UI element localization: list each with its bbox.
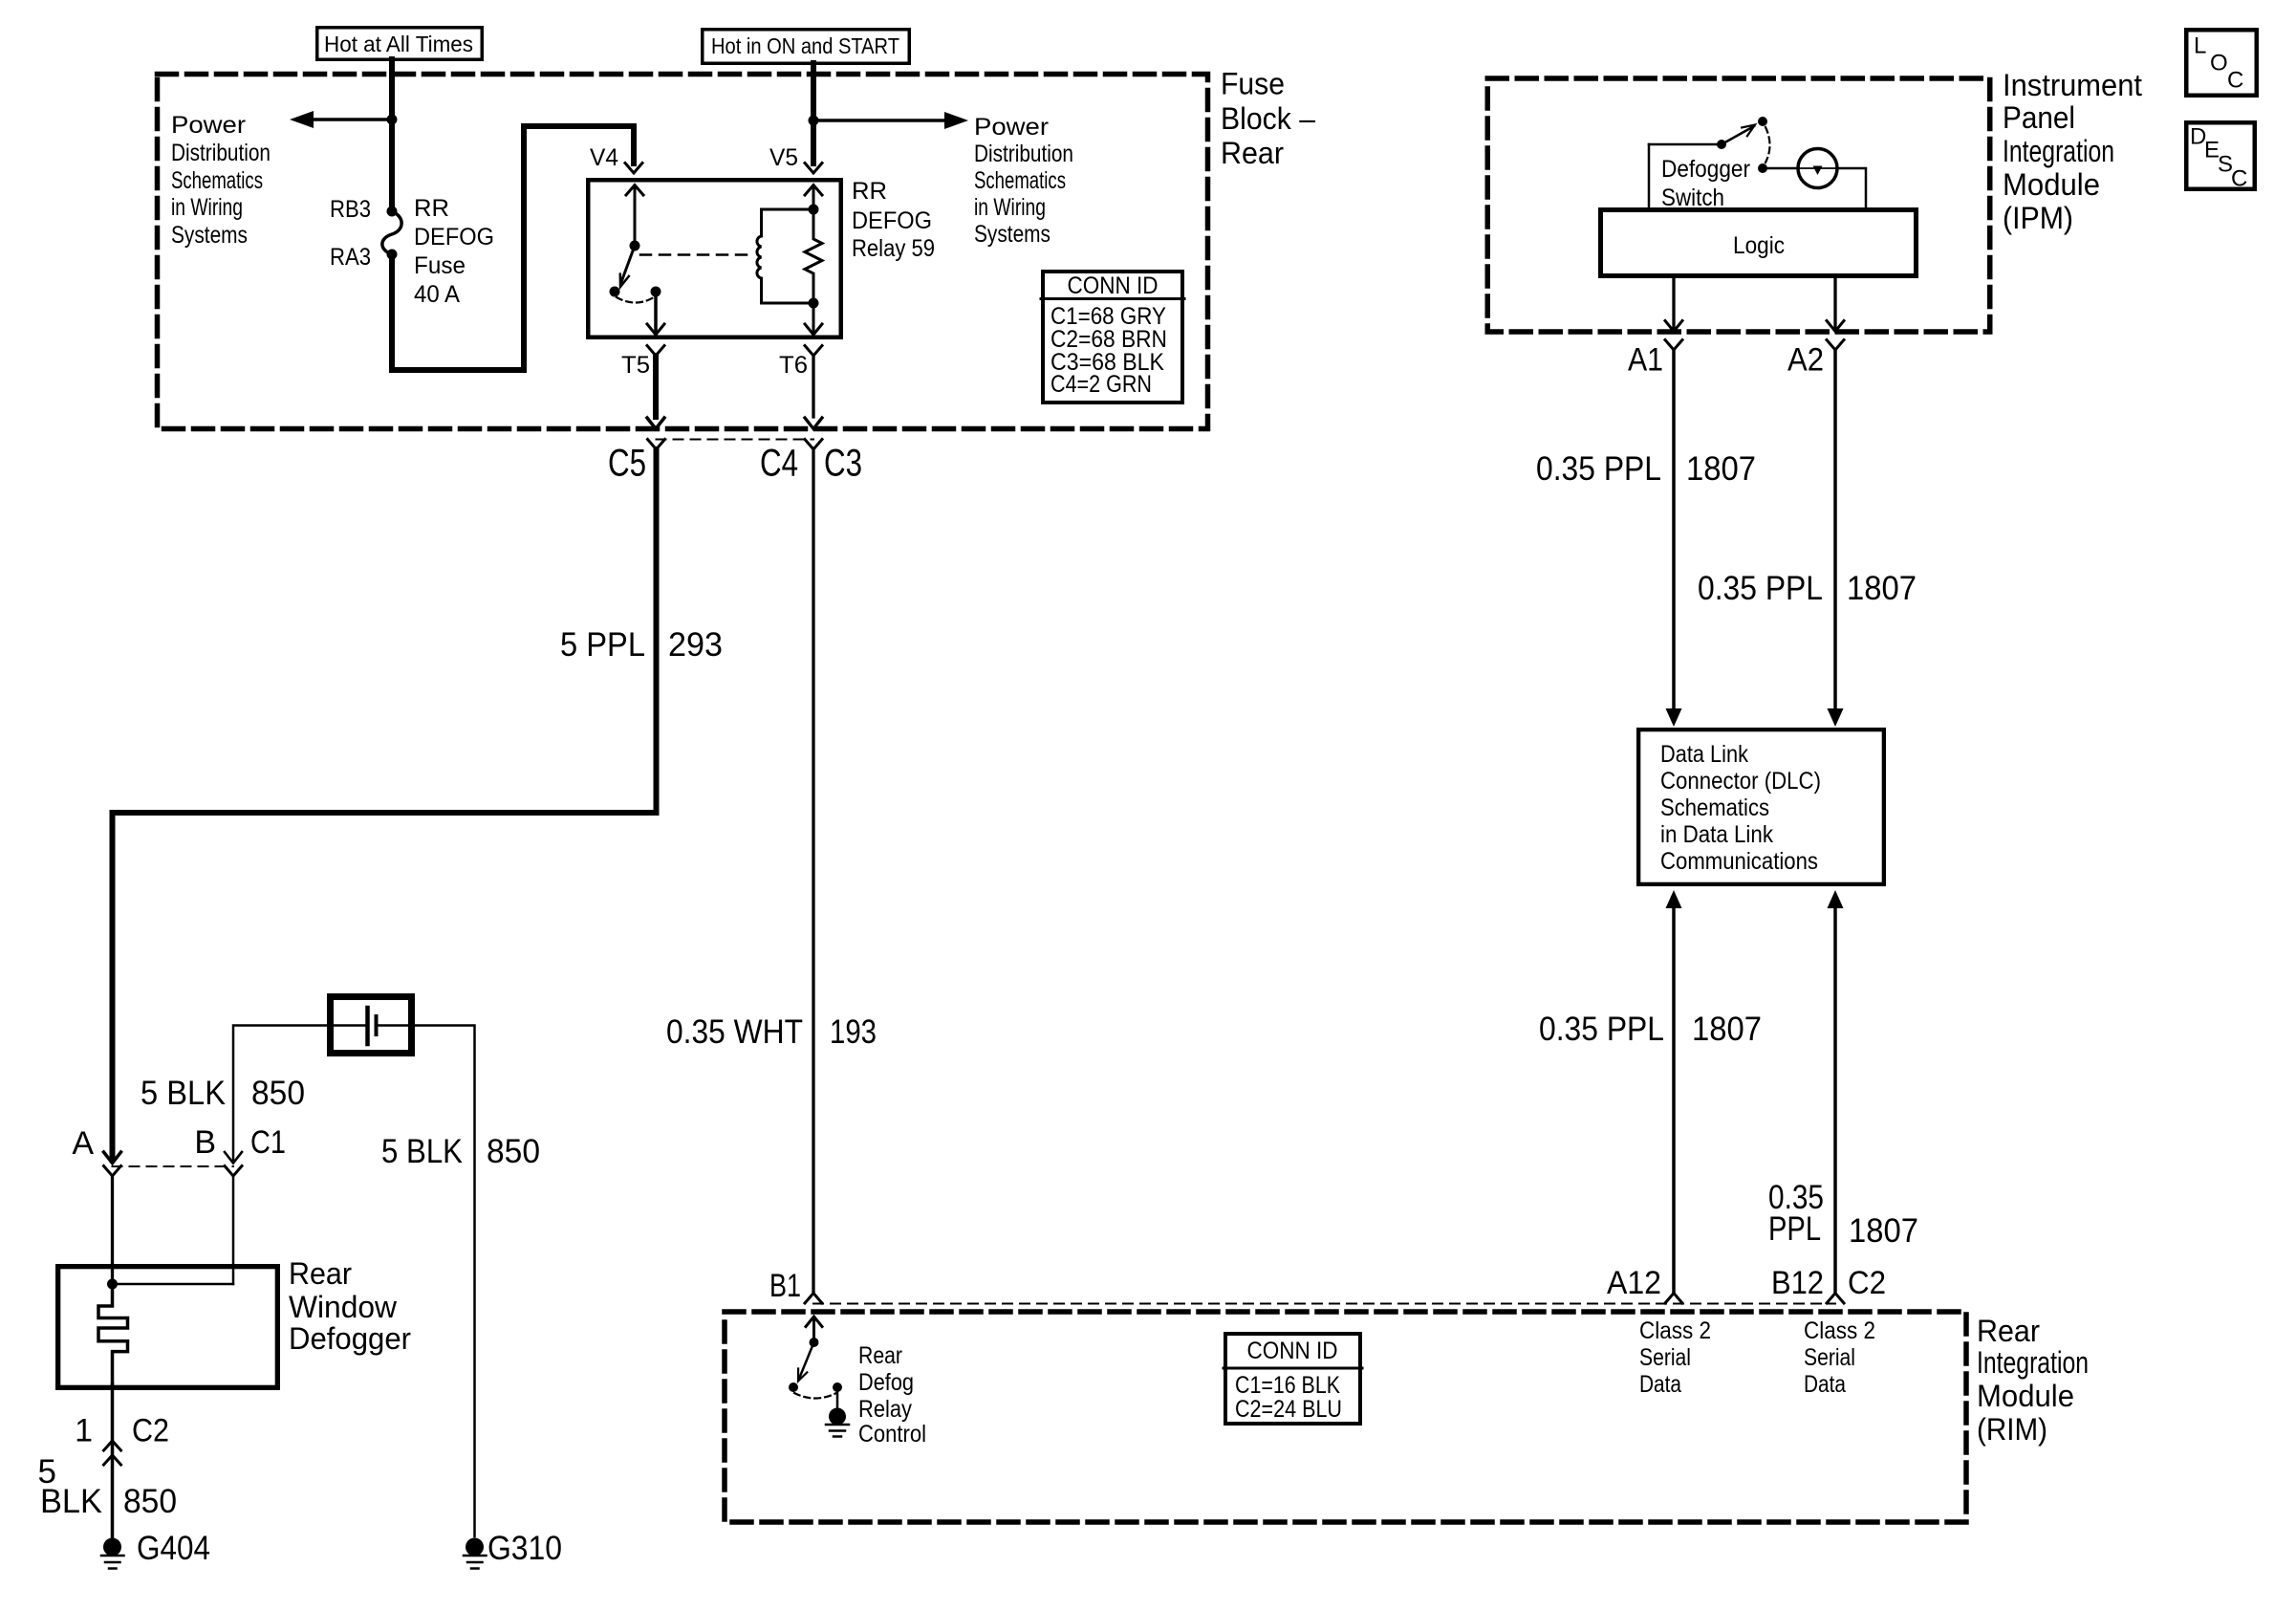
svg-text:T6: T6 — [779, 352, 808, 379]
wire label: 5 BLK | 850 (upper) — [141, 1075, 305, 1112]
svg-text:Power: Power — [974, 114, 1049, 141]
svg-text:RB3: RB3 — [330, 196, 371, 223]
wire: DLC down to RIM C2 — [1828, 890, 1844, 908]
svg-text:Hot in ON and START: Hot in ON and START — [711, 33, 899, 58]
connector 1 / C2 (double chevron) — [104, 1441, 121, 1450]
text: Power Distribution Schematics in Wiring Systems (left) — [171, 112, 271, 249]
wire: A1 down to DLC — [1672, 350, 1676, 709]
wire: voltmeter left lead down to connector B — [233, 1026, 365, 1161]
value label: RR DEFOG Fuse 40 A — [414, 195, 494, 308]
svg-text:1: 1 — [75, 1413, 93, 1449]
CONN ID table (RIM) — [1225, 1334, 1360, 1424]
svg-text:40 A: 40 A — [414, 281, 460, 308]
rear defog relay control driver: input arrow — [812, 1317, 815, 1342]
svg-text:Communications: Communications — [1660, 848, 1818, 875]
svg-text:C5: C5 — [608, 443, 646, 485]
wire: ignition feed from Hot in ON and START down to relay terminal V5 — [811, 63, 816, 163]
relay internal: common arm terminal from V4 — [634, 185, 637, 246]
relay internal: movable switch arm with arrowhead — [621, 246, 635, 282]
IPM dashed border — [1487, 78, 1990, 332]
wire: sensor to Logic — [1837, 168, 1866, 207]
label: RR DEFOG Relay 59 — [852, 178, 935, 262]
svg-text:O: O — [2210, 51, 2228, 76]
wire: C5 down, left and down to defogger pin A — [113, 449, 657, 1160]
DESC reference box — [2186, 122, 2255, 189]
label: Class 2 Serial Data (right) — [1804, 1317, 1875, 1398]
svg-text:Rear: Rear — [1221, 136, 1284, 170]
svg-text:B1: B1 — [769, 1268, 801, 1304]
svg-text:5 BLK: 5 BLK — [381, 1133, 463, 1170]
svg-text:Integration: Integration — [1977, 1345, 2089, 1380]
svg-text:Serial: Serial — [1639, 1344, 1691, 1371]
RIM dashed border — [725, 1312, 1966, 1522]
connector V5 — [805, 163, 822, 174]
wire: Logic output A2 — [1833, 278, 1836, 330]
svg-text:1807: 1807 — [1692, 1011, 1762, 1048]
label: Rear Defog Relay Control — [858, 1342, 926, 1448]
wire: C4 down to RIM pin B1 (0.35 WHT 193) — [812, 449, 814, 1293]
svg-text:BLK: BLK — [40, 1483, 102, 1520]
label box: Hot at All Times — [317, 28, 483, 60]
svg-text:in Wiring: in Wiring — [974, 194, 1046, 221]
relay internal: dashed throw arc — [617, 297, 654, 303]
wire: battery feed from Hot at All Times down to fuse RB3 — [389, 59, 395, 209]
node: driver pivot — [810, 1338, 819, 1347]
relay RR DEFOG Relay 59 box — [588, 180, 841, 337]
connector A1 — [1665, 340, 1682, 351]
svg-text:RR: RR — [414, 195, 449, 222]
svg-text:CONN ID: CONN ID — [1247, 1338, 1338, 1364]
Rear Window Defogger box — [58, 1267, 278, 1388]
svg-text:C3: C3 — [824, 443, 862, 485]
svg-text:C: C — [2231, 166, 2247, 192]
heater element (grid) — [98, 1284, 128, 1384]
fuse F59 RR DEFOG 40 A — [387, 207, 398, 217]
svg-text:850: 850 — [251, 1075, 305, 1112]
node: coil/resistor top junction — [809, 205, 819, 215]
wire label: 0.35 PPL | 1807 (B12/C2) — [1768, 1179, 1918, 1250]
svg-text:Schematics: Schematics — [1660, 795, 1769, 821]
relay internal: wire to T6 with arrow — [812, 303, 815, 334]
wire: contact to current sensor — [1763, 167, 1798, 170]
svg-text:293: 293 — [668, 626, 723, 664]
label: Defogger Switch — [1661, 156, 1750, 211]
svg-text:Rear: Rear — [289, 1256, 352, 1291]
svg-text:Data Link: Data Link — [1660, 741, 1748, 768]
svg-text:1807: 1807 — [1849, 1212, 1918, 1250]
svg-text:Defog: Defog — [858, 1369, 914, 1396]
svg-text:C2=24 BLU: C2=24 BLU — [1235, 1396, 1342, 1423]
svg-text:RA3: RA3 — [330, 244, 371, 271]
svg-text:T5: T5 — [621, 352, 650, 379]
connector A (Y) — [104, 1166, 121, 1177]
svg-text:V5: V5 — [769, 144, 798, 171]
connector T6 — [805, 346, 822, 357]
svg-text:0.35 WHT: 0.35 WHT — [666, 1013, 803, 1051]
svg-text:Distribution: Distribution — [974, 141, 1073, 167]
svg-text:V4: V4 — [590, 144, 618, 171]
svg-text:(RIM): (RIM) — [1977, 1412, 2047, 1447]
svg-text:C2: C2 — [1848, 1265, 1886, 1301]
svg-text:Rear: Rear — [858, 1342, 902, 1369]
svg-text:Module: Module — [1977, 1379, 2074, 1413]
node: junction on ignition feed — [809, 116, 819, 126]
svg-text:Hot at All Times: Hot at All Times — [324, 32, 473, 56]
svg-text:Serial: Serial — [1804, 1344, 1855, 1371]
Logic box — [1601, 210, 1917, 276]
svg-text:0.35 PPL: 0.35 PPL — [1539, 1011, 1664, 1048]
svg-text:Class 2: Class 2 — [1804, 1317, 1875, 1344]
svg-text:A: A — [72, 1125, 94, 1162]
label: Instrument Panel Integration Module (IPM) — [2003, 68, 2142, 235]
wire: relay T5 to fuse block edge — [653, 356, 659, 417]
relay internal: dashed actuation link to coil — [640, 253, 751, 256]
node: coil/resistor bottom junction — [809, 298, 819, 309]
svg-text:5 BLK: 5 BLK — [141, 1075, 226, 1112]
wire: A2 down to DLC — [1833, 350, 1837, 709]
svg-text:Distribution: Distribution — [171, 140, 271, 166]
label: Rear Window Defogger — [289, 1256, 411, 1356]
svg-text:G404: G404 — [137, 1530, 210, 1567]
label box: Hot in ON and START — [703, 30, 910, 64]
wire: pin A into defogger — [111, 1176, 114, 1284]
svg-text:Relay 59: Relay 59 — [852, 235, 935, 262]
label: Rear Integration Module (RIM) — [1977, 1314, 2089, 1447]
svg-text:L: L — [2194, 33, 2206, 59]
svg-text:Systems: Systems — [171, 222, 248, 249]
svg-text:Power: Power — [171, 112, 246, 139]
svg-text:5 PPL: 5 PPL — [560, 626, 645, 664]
text: Power Distribution Schematics in Wiring Systems (right) — [974, 114, 1073, 248]
svg-text:Schematics: Schematics — [974, 167, 1066, 194]
svg-text:RR: RR — [852, 178, 887, 205]
node: junction on feed wire — [387, 115, 398, 125]
wire: thin dashed connector tie along RIM edge — [813, 1303, 1835, 1305]
Data Link Connector (DLC) box — [1638, 729, 1884, 884]
svg-text:0.35 PPL: 0.35 PPL — [1536, 450, 1661, 488]
svg-text:Data: Data — [1804, 1371, 1846, 1398]
current sensor (circle) — [1798, 149, 1837, 188]
wire: DLC down to RIM A12 — [1666, 890, 1682, 908]
svg-text:Schematics: Schematics — [171, 167, 263, 194]
svg-text:in Data Link: in Data Link — [1660, 821, 1773, 848]
relay internal: V5 terminal arrow — [812, 185, 815, 209]
svg-text:C: C — [2227, 68, 2243, 94]
wire label: 5 BLK | 850 (lower) — [38, 1453, 177, 1520]
svg-text:Data: Data — [1639, 1371, 1681, 1398]
connector A2 — [1827, 340, 1844, 351]
wire: relay T6 to fuse block edge — [812, 356, 814, 417]
label: Fuse Block - Rear — [1221, 67, 1315, 171]
svg-text:Systems: Systems — [974, 221, 1051, 248]
wire label: 0.35 PPL | 1807 (A2) — [1698, 570, 1917, 607]
svg-text:Fuse: Fuse — [414, 252, 466, 279]
svg-text:B12: B12 — [1771, 1265, 1824, 1301]
connector B12 / C2 — [1827, 1294, 1844, 1304]
svg-text:Connector (DLC): Connector (DLC) — [1660, 768, 1821, 795]
svg-text:Logic: Logic — [1733, 232, 1785, 259]
svg-text:193: 193 — [830, 1013, 877, 1051]
svg-text:Instrument: Instrument — [2003, 68, 2142, 102]
svg-text:Fuse: Fuse — [1221, 67, 1285, 101]
switch contact — [1758, 163, 1767, 173]
svg-text:A1: A1 — [1628, 342, 1663, 379]
svg-text:C4=2 GRN: C4=2 GRN — [1051, 371, 1152, 398]
wire: thin dashed connector tie A-B — [113, 1165, 234, 1167]
svg-text:C2: C2 — [132, 1413, 169, 1449]
defogger switch: feed wire — [1649, 143, 1717, 146]
fuse block dashed border — [158, 75, 1208, 429]
wire: voltmeter right lead down to G310 — [379, 1026, 475, 1537]
relay internal: switch contacts — [610, 287, 620, 297]
connector B / C1 — [225, 1152, 242, 1164]
svg-text:Class 2: Class 2 — [1639, 1317, 1711, 1344]
connector T5 — [647, 346, 664, 357]
svg-text:DEFOG: DEFOG — [414, 224, 494, 250]
ground G404 — [103, 1538, 121, 1557]
relay internal: resistor — [805, 209, 822, 303]
label: Class 2 Serial Data (left) — [1639, 1317, 1711, 1398]
svg-text:C1=16 BLK: C1=16 BLK — [1235, 1372, 1340, 1399]
wire: branch arrow to Power Distribution (right) — [813, 119, 945, 122]
CONN ID table (fuse block) — [1043, 272, 1182, 403]
svg-text:850: 850 — [123, 1483, 177, 1520]
svg-text:Window: Window — [289, 1290, 398, 1324]
dashed throw arc (defogger switch) — [1765, 127, 1770, 163]
wire label: 5 BLK | 850 (right) — [381, 1133, 540, 1170]
svg-text:(IPM): (IPM) — [2003, 201, 2073, 235]
connector C5 — [648, 440, 665, 450]
svg-text:Defogger: Defogger — [1661, 156, 1750, 183]
connector V4 — [625, 163, 642, 174]
wire label: 5 PPL | 293 — [560, 626, 723, 664]
ground G310 — [466, 1538, 484, 1557]
wire label: 0.35 WHT | 193 — [666, 1013, 877, 1051]
svg-text:1807: 1807 — [1686, 450, 1756, 488]
connector C4 — [805, 440, 822, 450]
connector A12 — [1665, 1294, 1682, 1304]
node: switch throw dot — [1758, 117, 1767, 126]
svg-text:CONN ID: CONN ID — [1068, 272, 1159, 299]
switch contacts (RIM driver) — [789, 1382, 798, 1392]
dashed throw arc (RIM driver) — [794, 1393, 836, 1399]
svg-text:Relay: Relay — [858, 1396, 912, 1423]
svg-text:A2: A2 — [1787, 342, 1824, 379]
svg-text:Integration: Integration — [2003, 134, 2114, 168]
svg-text:Module: Module — [2003, 167, 2100, 202]
svg-text:A12: A12 — [1607, 1265, 1661, 1301]
voltmeter box — [331, 997, 412, 1054]
svg-text:1807: 1807 — [1847, 570, 1917, 607]
relay internal: coil — [757, 209, 762, 303]
internal ground of driver — [836, 1387, 839, 1407]
svg-text:Switch: Switch — [1661, 185, 1724, 211]
svg-text:PPL: PPL — [1768, 1210, 1821, 1248]
svg-text:C4: C4 — [760, 443, 798, 485]
wire label: 0.35 PPL | 1807 (A1 upper) — [1536, 450, 1756, 488]
svg-text:C1: C1 — [250, 1124, 286, 1161]
connector B1 — [805, 1294, 822, 1304]
wire: internal jumper to junction — [113, 1283, 234, 1286]
LOC reference box — [2186, 30, 2257, 96]
switch arm with arrowhead (RIM driver) — [799, 1342, 814, 1379]
wire: pin B into defogger — [232, 1176, 235, 1284]
svg-text:Defogger: Defogger — [289, 1321, 411, 1356]
node: switch pivot — [1717, 140, 1726, 149]
wire: branch arrow to Power Distribution (left) — [313, 118, 392, 121]
svg-text:850: 850 — [487, 1133, 540, 1170]
relay internal: wire contact to T5 with arrow — [654, 292, 658, 334]
wire: Logic output A1 — [1672, 278, 1675, 330]
node: defogger junction — [107, 1279, 118, 1290]
wire label: 0.35 PPL | 1807 (A12) — [1539, 1011, 1762, 1048]
svg-text:in Wiring: in Wiring — [171, 194, 243, 221]
svg-text:DEFOG: DEFOG — [852, 207, 932, 234]
svg-text:0.35 PPL: 0.35 PPL — [1698, 570, 1823, 607]
svg-text:G310: G310 — [487, 1530, 562, 1567]
svg-text:Rear: Rear — [1977, 1314, 2040, 1348]
switch arm with arrowhead (defogger switch) — [1722, 126, 1754, 144]
wire: thin dashed connector tie C5-C4 — [657, 439, 814, 441]
wire: defogger pin 1 to ground G404 — [111, 1384, 115, 1536]
svg-text:Control: Control — [858, 1421, 926, 1448]
svg-text:B: B — [194, 1124, 216, 1161]
wire: fuse output down, right and up to relay terminal V4 — [392, 126, 634, 370]
voltmeter element bars — [365, 1008, 370, 1044]
svg-text:Block –: Block – — [1221, 101, 1315, 136]
svg-text:Panel: Panel — [2003, 100, 2075, 135]
